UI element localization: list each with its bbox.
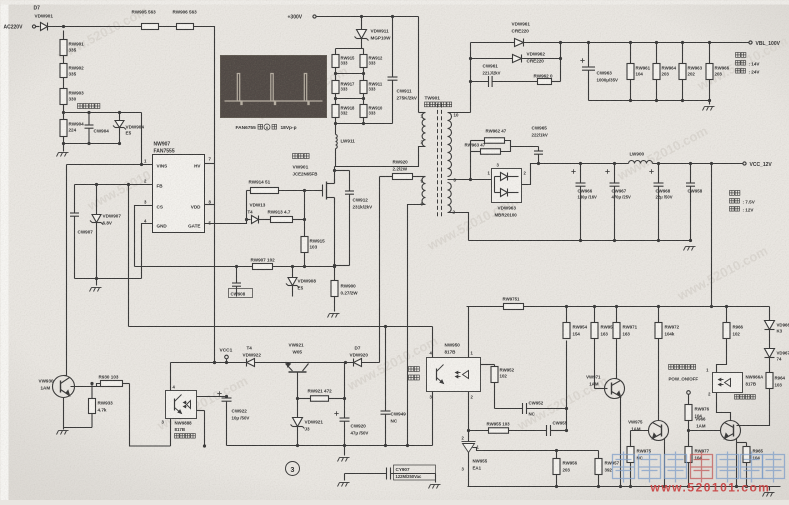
ground	[429, 485, 441, 489]
wire	[63, 78, 65, 89]
resistor RW911 333	[360, 81, 367, 94]
resistor RW963 202	[682, 43, 684, 64]
capacitor CY907 122M/250Vac	[344, 474, 346, 481]
wire	[63, 56, 65, 64]
diode VD967 74	[765, 349, 775, 358]
wire base row	[71, 386, 101, 388]
label 开关机控制 POW_ON/OFF	[669, 365, 674, 370]
resistor RW912 333	[360, 55, 367, 68]
wire node mains-detect	[63, 105, 65, 113]
wire	[335, 94, 337, 105]
capacitor CW904	[88, 113, 90, 125]
ground	[57, 153, 69, 157]
capacitor CW968 22u/50V	[649, 169, 653, 173]
transformer core	[438, 104, 442, 217]
capacitor CW912 231k/2kV	[335, 170, 350, 172]
wire opto NW950 pins	[468, 392, 470, 431]
left rail wire	[66, 165, 68, 376]
wire GATE pin5	[205, 191, 247, 224]
wire emitter	[736, 439, 738, 449]
capacitor CW911 275K/2kV	[392, 17, 394, 77]
resistor R964 103	[766, 373, 773, 389]
wire	[432, 327, 434, 358]
capacitor CW958	[690, 164, 692, 183]
wire ladder bottom	[335, 118, 337, 135]
resistor RW976 104	[685, 405, 692, 421]
op-amp U1 controller NW907 FAN7555 box	[153, 155, 205, 233]
resistor RW961 104	[630, 43, 632, 64]
wire collector	[615, 378, 617, 380]
resistor RW902 335	[60, 64, 67, 78]
wire	[123, 383, 130, 385]
numbered node 3 circle	[286, 462, 300, 476]
capacitor CW920 47u/50V	[334, 411, 338, 415]
wire	[247, 190, 251, 192]
inductor LW911	[336, 135, 338, 149]
resistor RW901 335	[63, 31, 65, 40]
node VCC_12V output	[743, 162, 746, 165]
wire VINS node	[141, 113, 143, 165]
diode VDW901	[41, 23, 48, 31]
wire	[36, 26, 40, 28]
wire	[335, 68, 337, 81]
wire to protection opto	[130, 384, 171, 447]
wire	[159, 26, 177, 28]
node POW_ON/OFF terminal	[687, 391, 691, 395]
paper grain overlay	[0, 0, 1, 1]
wire FB pin2	[75, 184, 153, 186]
wire opto pins	[170, 363, 172, 391]
diode VDW962 CRE220 parallel branch	[470, 43, 472, 113]
wire VBL bottom row	[589, 100, 710, 102]
resistor RW933 4.7k	[90, 382, 93, 385]
capacitor CW955	[547, 425, 551, 436]
wire base	[595, 388, 608, 390]
wire FB feedback vertical	[128, 185, 130, 327]
wire VCC1 row	[171, 362, 380, 364]
wire	[566, 341, 568, 431]
wire HV pin stub	[205, 163, 215, 165]
resistor RW918 332	[332, 105, 339, 118]
wire	[524, 306, 770, 308]
wire bottom of detect net	[64, 143, 120, 145]
wire base	[631, 430, 649, 432]
zener VDW904 E5	[119, 113, 121, 121]
shunt regulator NW955 EA1	[468, 431, 470, 442]
note measured VCC voltages	[730, 191, 735, 196]
ground	[338, 458, 350, 462]
wire startup HV rail	[194, 27, 215, 363]
resistor RW903 330	[60, 89, 67, 105]
capacitor CW907	[74, 185, 76, 213]
wire secondary ground rail	[468, 486, 781, 488]
node VBL_100V output	[749, 41, 752, 44]
wire emitter	[620, 397, 622, 487]
wire GND pin4	[142, 224, 153, 279]
zener VDW907 6.8V	[96, 185, 98, 215]
capacitor CW966 180u/16V	[571, 169, 575, 173]
wire primary bottom to drain	[335, 147, 426, 167]
resistor RW900 0.27/2W	[331, 281, 338, 297]
wire aux bottom return	[408, 205, 426, 446]
note measured VBL voltages	[736, 53, 741, 58]
resistor RW966 203	[709, 43, 711, 64]
resistor RW953 163	[594, 307, 596, 323]
label mains detect 市电检样	[78, 104, 83, 109]
ground	[90, 288, 102, 292]
wire	[273, 266, 335, 268]
wire emitter	[63, 398, 65, 428]
resistor RW910 333	[360, 105, 367, 118]
resistor RW917 333	[332, 81, 339, 94]
wire opto NW966A pin2	[717, 393, 731, 421]
dual diode VDW963 MBR20100	[492, 169, 522, 203]
wire 12V return rail	[469, 240, 691, 242]
ground	[57, 431, 69, 435]
wire VCC12 to lower rail	[711, 164, 713, 307]
wire emitter	[664, 439, 666, 449]
resistor RW957 392	[598, 451, 600, 459]
wire aux top to RW920	[413, 176, 426, 178]
wire AC line	[48, 26, 142, 28]
wire VCC1 bottom row	[227, 445, 433, 447]
capacitor CW967 470u/25V	[605, 169, 609, 173]
resistor RW955 103	[469, 430, 489, 432]
zener VDW911 MGP10W	[361, 17, 363, 30]
wire drain	[334, 167, 336, 184]
ground	[328, 314, 340, 318]
optocoupler NW966A 817B	[713, 373, 743, 393]
ground	[769, 487, 771, 491]
wire TL431 ref	[473, 448, 557, 451]
wire pin10 to rectifier	[448, 112, 471, 114]
wire GND net bottom row	[75, 278, 142, 280]
resistor R965 104	[737, 442, 747, 444]
wire VCC rail	[653, 163, 743, 165]
wire CS pin3	[135, 206, 153, 267]
wire	[64, 112, 142, 114]
transformer secondary winding 8-2	[448, 183, 452, 213]
resistor RW904 224	[63, 113, 65, 120]
wire VBL row	[471, 42, 515, 44]
resistor RW977 104	[685, 447, 692, 463]
ground	[703, 107, 715, 111]
capacitor CW952 NC	[495, 408, 523, 410]
capacitor CW949 NC	[385, 327, 387, 411]
resistor RW972 104k	[658, 307, 660, 323]
wire RW9751 rail	[467, 306, 504, 308]
capacitor CW963 1000u/35V	[580, 58, 584, 62]
transistor VW901 MOSFET symbol	[319, 179, 335, 203]
wire aux supply rail down	[380, 176, 393, 178]
wire	[304, 191, 306, 220]
resistor R966 102	[726, 307, 728, 323]
wire CW920 riser	[344, 363, 346, 419]
transistor Q1 VW901 JCE2N65FB labels 开关管	[293, 154, 298, 159]
ground	[338, 483, 350, 487]
wire +300V to primary	[418, 17, 420, 113]
zener VDW921 J3	[291, 418, 305, 429]
wire	[467, 307, 469, 358]
wire source	[334, 198, 336, 281]
capacitor CW908	[236, 267, 238, 283]
oscilloscope waveform photo inset	[221, 56, 327, 118]
resistor RW964 203	[656, 43, 658, 64]
ground	[684, 247, 696, 251]
wire	[717, 339, 727, 373]
resistor RW915 333 ladder	[332, 55, 339, 68]
wire	[737, 389, 770, 426]
watermark logo 家电维修资料网 blue	[613, 452, 635, 483]
optocoupler NW9888 817B 保护光耦	[166, 391, 197, 419]
resistor RW952 102	[481, 364, 495, 366]
wire ladder top	[336, 48, 364, 50]
resistor RW915 103	[304, 220, 306, 237]
capacitor CW922 10u/50V	[217, 391, 221, 395]
wire	[432, 392, 434, 446]
diode VD966 K3	[769, 307, 771, 321]
wire base	[689, 430, 721, 432]
resistor RW956 203	[556, 451, 558, 459]
wire rectifier output	[522, 164, 629, 185]
wire VDD pin stub	[205, 204, 215, 206]
wire RW907 row	[135, 266, 253, 268]
wire pin8 to MBR	[448, 179, 492, 181]
resistor RW954 154	[566, 307, 568, 323]
zener VDW908 E5	[292, 267, 294, 278]
wire feedback rail	[129, 326, 433, 328]
wire collector	[64, 375, 67, 377]
wire	[297, 373, 299, 418]
resistor RW975 NC	[630, 431, 632, 447]
resistor RW971 163	[616, 307, 618, 323]
